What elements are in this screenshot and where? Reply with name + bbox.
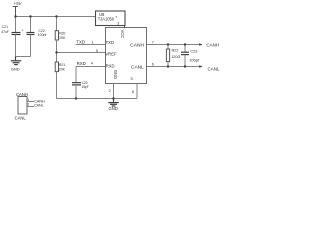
svg-text:15pF: 15pF [81, 85, 88, 89]
svg-text:C21: C21 [2, 25, 8, 29]
node rail-R20 [55, 15, 57, 17]
node rail-5V [14, 15, 16, 17]
wire connector pin1 [27, 101, 34, 103]
svg-text:CANH: CANH [206, 43, 219, 48]
svg-text:R22: R22 [172, 49, 179, 53]
svg-text:CANH: CANH [130, 42, 144, 47]
ground left [11, 57, 21, 65]
svg-text:VCC: VCC [120, 30, 125, 39]
wire C22 down [30, 35, 32, 57]
svg-text:20K: 20K [59, 36, 66, 40]
wire R21 down [56, 72, 58, 99]
svg-text:+: + [21, 29, 23, 33]
svg-text:TXD: TXD [76, 39, 85, 44]
wire CANL [147, 66, 203, 68]
VCC pin3 stub [124, 26, 126, 29]
arrow CANL end [199, 65, 202, 67]
node gnd-sym [112, 97, 114, 99]
svg-text:8: 8 [132, 90, 134, 94]
wire C20 down [75, 85, 77, 99]
wire pin2 drop [113, 84, 115, 99]
wire ground rail [57, 98, 138, 100]
svg-text:CANL: CANL [15, 115, 27, 120]
wire C22 riser [30, 17, 32, 33]
svg-text:R20: R20 [59, 32, 65, 36]
wire pin8 drop [136, 84, 138, 99]
node rail-C22 [29, 15, 31, 17]
svg-text:CANH: CANH [34, 99, 45, 103]
svg-text:47uF: 47uF [1, 30, 9, 34]
svg-text:CANH: CANH [16, 92, 28, 97]
power +5V symbol [13, 7, 18, 17]
node CANL-C23 [184, 65, 186, 67]
svg-text:CANL: CANL [34, 104, 44, 108]
IC U8 box [106, 28, 147, 84]
svg-text:100nf: 100nf [38, 33, 47, 37]
wire cap bottoms join [16, 56, 31, 58]
wire VREF [57, 52, 106, 54]
svg-text:GND: GND [113, 70, 118, 79]
arrow CANH end [199, 43, 202, 45]
svg-text:1: 1 [92, 40, 94, 44]
resistor R22 [166, 45, 169, 67]
node CANL-R22 [167, 65, 169, 67]
wire R20 riser [56, 17, 58, 31]
node gnd-C20 [75, 97, 77, 99]
svg-text:TJA1050: TJA1050 [98, 17, 115, 22]
svg-text:2: 2 [109, 89, 111, 93]
svg-text:VREF: VREF [105, 52, 117, 57]
wire C21 down [15, 35, 17, 57]
svg-text:T: T [115, 15, 117, 19]
resistor R21 [55, 62, 58, 72]
svg-text:S: S [130, 77, 133, 81]
wire top rail [16, 16, 96, 18]
wire TXD stub [76, 44, 106, 46]
wire RXD [76, 66, 106, 68]
svg-text:GND: GND [11, 66, 20, 71]
svg-text:RXD: RXD [77, 61, 86, 66]
wire C21 riser [15, 17, 17, 33]
svg-text:RXD: RXD [106, 63, 115, 68]
capacitor C21 [12, 33, 21, 35]
junction dots [14, 15, 186, 99]
svg-text:7: 7 [152, 41, 154, 45]
capacitor C20 [72, 83, 81, 85]
svg-text:4: 4 [91, 62, 93, 66]
svg-text:100pf: 100pf [189, 58, 200, 63]
U8 label box [96, 11, 126, 26]
capacitor C23 [181, 45, 189, 67]
svg-text:1: 1 [27, 98, 29, 102]
capacitor C22 [27, 33, 35, 35]
svg-text:20K: 20K [59, 67, 66, 71]
svg-text:+5V: +5V [14, 1, 23, 6]
svg-text:3: 3 [117, 21, 119, 25]
svg-text:CANL: CANL [131, 65, 144, 70]
svg-text:C23: C23 [190, 49, 197, 53]
connector P1 box [18, 97, 27, 115]
node CANH-R22 [167, 43, 169, 45]
wire connector pin2 [27, 106, 34, 108]
node VREF divider [55, 51, 57, 53]
svg-text:5: 5 [96, 49, 98, 53]
svg-text:120Ω: 120Ω [171, 55, 180, 59]
wire R20 to node [56, 40, 58, 62]
node CANH-C23 [184, 43, 186, 45]
wire RXD bend down [75, 67, 77, 83]
resistor R20 [55, 31, 58, 40]
svg-text:GND: GND [109, 106, 118, 111]
svg-text:CANL: CANL [208, 67, 221, 72]
svg-text:TXD: TXD [106, 40, 114, 45]
wire CANH [147, 44, 203, 46]
ground bottom [108, 99, 118, 107]
svg-text:2: 2 [27, 103, 29, 107]
svg-text:6: 6 [152, 63, 154, 67]
